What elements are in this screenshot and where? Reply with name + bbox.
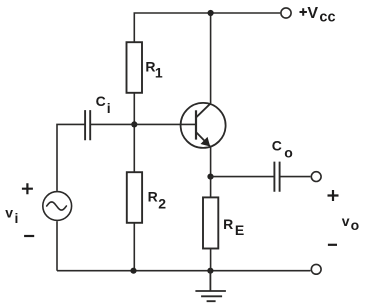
svg-text:C: C [96,93,106,109]
resistor RE [203,197,218,248]
svg-text:i: i [107,100,111,116]
source vi circle [43,192,72,221]
wire input left branch: source to Ci left plate [57,124,85,190]
resistor R1 [127,42,143,93]
wire emitter node to RE top [210,177,212,198]
label input minus [24,235,34,237]
node emitter junction [207,174,213,180]
capacitor Co [274,162,279,192]
svg-text:cc: cc [319,9,335,25]
svg-text:o: o [351,217,360,233]
svg-text:V: V [307,5,318,22]
source sine wave [47,202,67,210]
label input plus [22,183,33,194]
label vo [342,213,359,233]
svg-text:R: R [148,188,158,204]
node junction top rail [208,10,214,16]
transistor Q1 circle [181,103,226,148]
transistor base bar [195,110,197,139]
terminal +Vcc [281,8,291,18]
label output minus [328,244,337,246]
wire R1 bottom to R2 top through base node [133,93,135,172]
label Ci [96,93,111,116]
svg-text:2: 2 [158,196,166,212]
svg-text:v: v [5,205,13,221]
label R2 [148,188,167,211]
svg-text:o: o [284,145,293,161]
label Co [272,137,293,160]
svg-text:1: 1 [155,65,163,81]
transistor collector diagonal [196,103,211,117]
svg-text:R: R [223,216,233,232]
wire R2 bottom to ground rail [133,223,135,271]
node base junction [131,121,137,127]
label vi [5,205,18,227]
svg-text:C: C [272,137,282,153]
label R1 [145,58,163,80]
terminal output bottom [311,264,321,274]
transistor emitter diagonal [196,132,210,146]
label +Vcc [300,5,336,26]
node bottom rail below RE [207,268,213,274]
label output plus [328,190,339,201]
ground symbol [195,271,226,302]
wire Co right plate to output terminal [280,176,311,178]
resistor R2 [127,172,142,223]
wire bottom rail [57,270,311,272]
wire source bottom to ground rail [56,221,58,271]
label RE [223,216,244,238]
wire emitter node to Co left plate [211,176,275,178]
terminal output top [311,172,321,182]
wire top rail from R1 branch to +Vcc terminal [134,13,280,42]
wire RE bottom to ground rail [210,249,212,271]
wire Ci right plate to base bar [91,123,196,125]
svg-text:i: i [15,210,19,226]
wire collector to top rail [210,13,212,103]
wire emitter to emitter node [210,147,212,176]
svg-text:v: v [342,213,350,229]
capacitor Ci [85,110,90,140]
node bottom rail below R2 [130,268,136,274]
transistor emitter arrowhead [201,137,211,147]
svg-text:E: E [235,222,244,238]
